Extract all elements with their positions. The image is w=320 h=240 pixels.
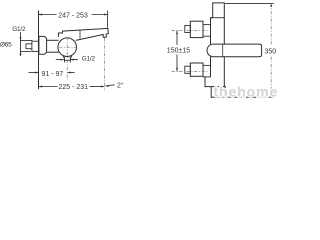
svg-text:91 - 97: 91 - 97 [42,71,64,78]
dimension 350 extension top [225,2,274,4]
svg-text:thehome: thehome [214,83,279,99]
Ø65 extension bottom [21,51,31,53]
spout front rounded bar [207,44,262,57]
spout joint line [79,30,81,38]
bottom outlet foot [211,87,225,98]
bottom union pipe (front view) [185,66,191,73]
dimension 350 extension bottom [226,96,274,98]
circle horizontal centerline (dash-dot) [59,46,77,48]
circle vertical centerline (dash-dot) [66,37,68,80]
flange (escutcheon, left view) [39,36,47,54]
body barrel top edge [47,39,59,41]
dimension 150±15 vertical line [176,30,178,45]
Ø65 dimension vertical line [20,32,22,56]
top union flange [190,21,203,37]
G1/2 dimension arrows (hose outlet) [56,59,64,61]
svg-text:Ø65: Ø65 [0,42,12,49]
cap inner line [211,17,225,19]
Ø65 extension top [21,40,33,42]
svg-text:2°: 2° [117,81,124,89]
spout axis dash-dot vertical [103,38,105,91]
dimension 91-97 arrows [29,72,39,74]
spout front joint line [222,44,224,57]
svg-text:247 - 253: 247 - 253 [58,12,88,19]
dimension 247-253 line [38,14,56,16]
dimension 225-231 line [38,86,57,88]
shower outlet stub below circle [63,56,72,60]
top union connector [203,24,211,26]
2 degree leader line [105,85,114,86]
union pipe (left view) [26,43,32,45]
top union centerline (dash-dot) [172,29,209,31]
bottom union flange [190,63,203,76]
body top cap [211,3,225,44]
svg-text:G1/2: G1/2 [12,26,26,33]
spout / lever outline (left view) [58,28,108,40]
bottom union connector [203,64,211,66]
body below spout [223,57,225,87]
svg-text:350: 350 [265,49,277,56]
body barrel bottom edge [47,51,59,53]
extension line right of 247-253 [107,11,109,28]
union nut (left view) [32,41,39,51]
svg-text:150±15: 150±15 [167,47,190,54]
top union pipe (front view) [185,25,191,32]
wall line (left view) [38,11,40,90]
svg-text:225 - 231: 225 - 231 [59,84,89,91]
handle ball circle [58,38,77,57]
dimension 350 vertical line [270,3,272,46]
bottom union centerline (dash-dot) [172,70,209,72]
svg-text:G1/2: G1/2 [82,56,96,63]
